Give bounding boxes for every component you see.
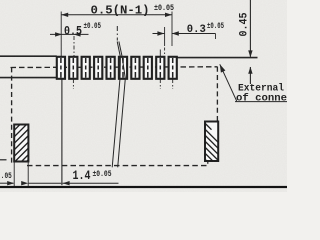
connector outline dashed bottom bbox=[27, 165, 208, 167]
leader arrow external form bbox=[220, 64, 287, 101]
break line left bbox=[112, 42, 120, 168]
stray dash left edge bbox=[0, 159, 7, 161]
extension ticks bbox=[164, 27, 166, 46]
connector outline dashed top-left bbox=[11, 66, 218, 69]
pad 2 centerline stub bbox=[73, 36, 75, 57]
connector outline dashed right vertical bbox=[216, 67, 218, 122]
pad 2 bbox=[69, 57, 77, 79]
right fitting-nail pad hatched bbox=[205, 122, 218, 162]
connector outline dashed step right bottom bbox=[207, 161, 209, 166]
pad row bottom line left bbox=[0, 77, 57, 79]
pad 4 bbox=[94, 57, 102, 79]
pad 1 bbox=[57, 57, 65, 79]
pad 9 bbox=[156, 57, 164, 79]
dimension 0.5(N-1) line bbox=[61, 12, 172, 47]
break line right bbox=[118, 42, 126, 168]
pad 8 bbox=[144, 57, 152, 79]
pad 3 bbox=[82, 57, 90, 79]
pad 6 bbox=[119, 57, 127, 79]
pad 7 bbox=[131, 57, 139, 79]
pad 10 bbox=[169, 57, 177, 79]
pad 9 centerline stub above bbox=[159, 50, 161, 57]
dimension 0.45 vertical bbox=[248, 0, 252, 84]
pad 1 centerline full vertical bbox=[60, 12, 62, 57]
extension ticks nail pad edges bbox=[13, 163, 15, 188]
dimension 0.5 pitch bbox=[50, 32, 89, 36]
paper noise bbox=[0, 0, 287, 192]
left fitting-nail pad hatched bbox=[14, 125, 28, 162]
pad row top line right bbox=[177, 57, 258, 59]
pad 5 bbox=[107, 57, 115, 79]
dimension 0.3 pad gap bbox=[153, 27, 216, 57]
dimension 1.4 and .05 bottom bbox=[0, 161, 119, 187]
border band bottom bbox=[0, 186, 287, 188]
pad row top line left bbox=[0, 55, 57, 57]
break line centerline stub above bbox=[116, 26, 118, 41]
pad 10 centerline stub bbox=[172, 79, 174, 89]
connector outline dashed left vertical bbox=[11, 67, 13, 163]
pad 9 centerline stub bbox=[159, 79, 161, 89]
extension tick pad10 center bbox=[171, 12, 173, 47]
